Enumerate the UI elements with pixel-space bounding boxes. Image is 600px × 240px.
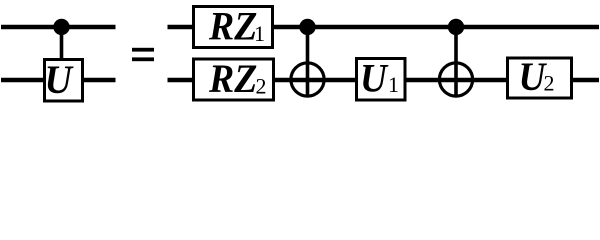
wire CNOT2 vertical [454, 27, 458, 96]
gate U2 box [508, 56, 572, 99]
target oplus (CNOT1) [291, 63, 324, 96]
svg-text:2: 2 [544, 71, 555, 96]
equals sign [132, 48, 154, 61]
svg-text:RZ: RZ [208, 57, 257, 101]
target oplus (CNOT2) [439, 63, 472, 96]
wire bottom qubit (left circuit) [1, 78, 116, 83]
wire control vertical (left CU) [60, 27, 64, 60]
control dot (CNOT1) [299, 19, 315, 35]
svg-text:2: 2 [256, 73, 267, 98]
svg-text:U: U [45, 58, 74, 102]
svg-text:U: U [360, 57, 389, 100]
wire bottom qubit (right circuit) [168, 78, 600, 83]
svg-text:RZ: RZ [208, 5, 257, 49]
svg-text:1: 1 [388, 72, 399, 97]
control dot (left CU) [53, 19, 69, 35]
gate RZ2 box [194, 57, 274, 101]
gate U1 box [357, 57, 406, 100]
wire top qubit (right circuit) [168, 25, 600, 30]
control dot (CNOT2) [448, 19, 464, 35]
wire CNOT1 vertical [306, 27, 310, 96]
svg-text:1: 1 [254, 21, 265, 46]
gate U box (left) [45, 58, 83, 102]
wire top qubit (left circuit) [1, 25, 116, 30]
gate RZ1 box [194, 5, 273, 49]
